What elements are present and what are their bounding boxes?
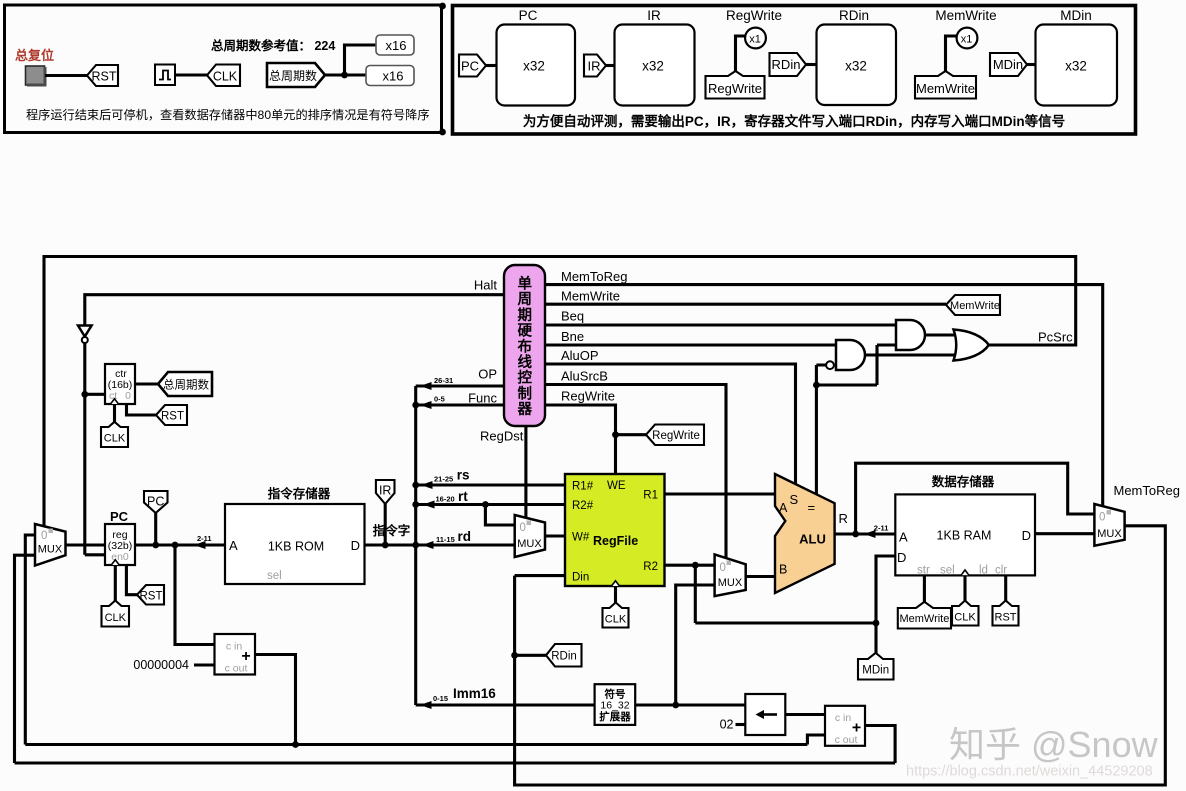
svg-text:+: + xyxy=(241,648,250,665)
node junction xyxy=(412,501,419,508)
svg-text:RegFile: RegFile xyxy=(593,534,638,548)
svg-text:x32: x32 xyxy=(642,59,664,74)
node junction xyxy=(873,620,880,627)
svg-text:1KB RAM: 1KB RAM xyxy=(937,529,992,543)
splitter arrow 0-15 xyxy=(420,701,432,709)
RAM 1KB (data memory) xyxy=(895,494,1035,575)
node box1 top-right corner dot xyxy=(439,3,446,10)
wire instruction bus vertical xyxy=(414,386,417,705)
svg-text:x1: x1 xyxy=(749,34,761,46)
svg-text:PC: PC xyxy=(519,8,538,23)
wire MemToReg mux out (write-back bus) xyxy=(515,526,1166,785)
svg-text:MemToReg: MemToReg xyxy=(561,269,627,284)
tunnel MemWrite (right) xyxy=(946,295,1000,315)
button 总复位 xyxy=(26,66,45,85)
tunnel RST (RAM) xyxy=(993,601,1019,626)
svg-text:https://blog.csdn.net/weixin_4: https://blog.csdn.net/weixin_44529208 xyxy=(906,764,1153,780)
svg-text:RegWrite: RegWrite xyxy=(708,81,762,96)
svg-text:PcSrc: PcSrc xyxy=(1038,330,1073,345)
svg-text:x1: x1 xyxy=(961,34,973,46)
svg-text:IR: IR xyxy=(379,484,392,498)
wire Beq row xyxy=(545,323,896,326)
splitter arrow 11-15 xyxy=(422,541,434,549)
node junction xyxy=(511,652,518,659)
svg-text:MemToReg: MemToReg xyxy=(1114,483,1180,498)
tunnel RegWrite (up) xyxy=(706,71,765,99)
svg-text:RegDst: RegDst xyxy=(480,429,524,444)
wire RAM D input riser xyxy=(876,556,895,623)
svg-text:RST: RST xyxy=(140,591,163,603)
svg-text:R2#: R2# xyxy=(572,500,594,512)
tunnel RST (PC reg) xyxy=(137,585,164,605)
wire xyxy=(806,63,817,66)
clock source xyxy=(155,65,175,86)
svg-text:rt: rt xyxy=(458,489,468,504)
tunnel CLK (RAM) xyxy=(952,601,979,626)
wire clock to CLK xyxy=(175,73,207,76)
node junction xyxy=(152,542,159,549)
svg-text:线: 线 xyxy=(518,353,533,371)
svg-text:Bne: Bne xyxy=(561,329,584,344)
node junction xyxy=(172,542,179,549)
wire sign-extend riser to B mux in1 xyxy=(676,585,715,705)
counter ctr 16b xyxy=(105,364,135,404)
node junction xyxy=(813,382,820,389)
svg-text:11-15: 11-15 xyxy=(436,535,455,544)
wire PC value row xyxy=(135,543,225,546)
tunnel 总周期数 (main, bold) xyxy=(158,372,212,396)
svg-text:周: 周 xyxy=(518,291,533,308)
probe x1 MemWrite xyxy=(957,28,978,49)
probe x32 RDin xyxy=(817,25,897,106)
svg-text:R1#: R1# xyxy=(572,481,594,493)
wire PC+4 row (bottom) xyxy=(25,735,825,745)
svg-text:0: 0 xyxy=(1099,512,1105,524)
wire CLK tunnel to RAM clock xyxy=(963,575,966,601)
svg-text:21-25: 21-25 xyxy=(434,475,453,484)
probe x32 MDin xyxy=(1036,25,1118,106)
wire MDin row xyxy=(695,621,876,624)
svg-text:x32: x32 xyxy=(523,59,545,74)
AND gate (Beq and equal) xyxy=(896,320,925,350)
tunnel RST (box1) xyxy=(87,65,118,86)
wire PC mux in1 riser (branch target) xyxy=(15,555,36,763)
svg-text:rd: rd xyxy=(458,529,472,544)
wire to adder1 xyxy=(175,545,215,645)
svg-text:扩展器: 扩展器 xyxy=(599,710,631,723)
svg-text:sel: sel xyxy=(940,565,955,577)
wire x1 to tunnel xyxy=(946,36,957,73)
wire RST to PC reg xyxy=(126,565,137,595)
wire adder2 out to branch row xyxy=(865,726,895,764)
svg-text:AluOP: AluOP xyxy=(561,348,599,363)
svg-text:控: 控 xyxy=(518,369,533,387)
svg-text:0: 0 xyxy=(41,530,47,542)
svg-text:WE: WE xyxy=(607,480,626,492)
svg-text:RegWrite: RegWrite xyxy=(652,430,700,442)
svg-text:c in: c in xyxy=(226,641,243,653)
wire AND2 out to OR xyxy=(925,333,958,336)
svg-text:clr: clr xyxy=(995,565,1007,577)
ROM 1KB (instruction memory) xyxy=(225,504,365,584)
splitter arrow 16-20 xyxy=(423,501,435,509)
tunnel CLK (RegFile) xyxy=(603,603,629,628)
wire CLK to counter clock xyxy=(113,404,116,425)
svg-text:MUX: MUX xyxy=(1097,528,1122,540)
wire ALU result bypass to MemToReg mux in0 xyxy=(856,463,1095,534)
node junction xyxy=(692,562,699,569)
node junction xyxy=(81,391,88,398)
node junction xyxy=(482,501,489,508)
svg-text:R1: R1 xyxy=(643,490,658,502)
svg-text:0-5: 0-5 xyxy=(434,395,445,404)
svg-text:MUX: MUX xyxy=(38,544,63,556)
node junction xyxy=(672,702,679,709)
register file RegFile xyxy=(565,474,665,586)
svg-text:CLK: CLK xyxy=(954,612,976,624)
tunnel IR (box2) xyxy=(584,55,606,77)
svg-text:0-15: 0-15 xyxy=(433,694,448,703)
svg-text:A: A xyxy=(779,501,788,515)
splitter arrow 21-25 xyxy=(421,481,433,489)
adder branch target xyxy=(825,706,865,746)
svg-text:程序运行结束后可停机，查看数据存储器中80单元的排序情况是有: 程序运行结束后可停机，查看数据存储器中80单元的排序情况是有符号降序 xyxy=(26,107,430,122)
node junction xyxy=(382,542,389,549)
svg-text:总周期数参考值： 224: 总周期数参考值： 224 xyxy=(211,38,335,53)
svg-text:16_32: 16_32 xyxy=(600,700,629,712)
svg-text:0: 0 xyxy=(125,390,131,402)
svg-text:MemWrite: MemWrite xyxy=(935,8,996,23)
wire branch target row (bottom) xyxy=(15,761,896,764)
control unit 单周期硬布线控制器 xyxy=(504,265,545,426)
wire RegDst mux out to W# xyxy=(545,534,565,537)
tunnel MemWrite (up) xyxy=(915,71,976,99)
wire rt branch to RegDst mux in0 xyxy=(485,505,514,526)
wire inverter out to counter and PC reg enable xyxy=(85,343,105,555)
svg-text:=: = xyxy=(808,500,816,515)
wire AND1 out to OR xyxy=(865,353,958,356)
wire AluSrcB to B mux select xyxy=(545,385,726,559)
svg-text:CLK: CLK xyxy=(213,70,238,84)
svg-text:str: str xyxy=(917,565,930,577)
wire R2 to B mux in0 xyxy=(664,564,714,567)
svg-text:x16: x16 xyxy=(383,69,404,84)
wire RST to counter clr xyxy=(127,404,157,415)
mux MemToReg xyxy=(1094,504,1124,546)
svg-text:26-31: 26-31 xyxy=(434,376,453,385)
wire sign extender out xyxy=(635,703,745,706)
wire R2 branch down to MDin row xyxy=(694,565,697,623)
svg-text:ld: ld xyxy=(979,565,988,577)
tunnel CLK (counter) xyxy=(101,422,128,447)
svg-text:Din: Din xyxy=(572,572,589,584)
svg-text:0: 0 xyxy=(520,522,526,534)
probe x16 lower xyxy=(366,66,414,86)
svg-text:期: 期 xyxy=(518,306,533,324)
node junction xyxy=(412,402,419,409)
wire PC tunnel drop xyxy=(154,513,157,545)
svg-text:Halt: Halt xyxy=(474,278,498,293)
svg-text:布: 布 xyxy=(518,337,533,355)
node junction xyxy=(412,542,419,549)
wire xyxy=(606,64,615,67)
svg-text:PC: PC xyxy=(110,509,129,524)
panel box top-left xyxy=(5,5,442,133)
wire button to RST xyxy=(45,74,87,77)
wire counter out xyxy=(135,382,158,385)
node junction xyxy=(852,531,859,538)
wire rt row xyxy=(416,503,565,506)
clock notch PC reg xyxy=(111,560,119,565)
AND gate (Bne and not-equal) xyxy=(836,340,865,370)
wire ALU = output up to gates xyxy=(816,345,896,494)
tunnel PC (box2) xyxy=(459,55,486,77)
svg-text:S: S xyxy=(790,492,799,507)
tunnel CLK (PC reg) xyxy=(102,601,130,627)
tunnel RegWrite (right of control) xyxy=(646,425,704,446)
wire RegWrite net xyxy=(545,405,646,474)
mux PC source xyxy=(35,524,66,566)
wire R1 to ALU A xyxy=(664,492,775,495)
svg-text:CLK: CLK xyxy=(104,433,126,445)
svg-text:D: D xyxy=(351,538,360,553)
clock notch RegFile xyxy=(612,581,620,586)
svg-text:指令字: 指令字 xyxy=(373,523,411,538)
svg-text:MUX: MUX xyxy=(517,538,542,550)
shifter left-shift xyxy=(745,694,785,735)
svg-text:+: + xyxy=(852,720,861,737)
panel box top-right xyxy=(453,6,1136,135)
svg-text:总周期数: 总周期数 xyxy=(269,68,317,83)
wire MemWrite tunnel to RAM str xyxy=(923,575,926,603)
wire adder1 out to PC+4 row xyxy=(255,655,296,745)
tunnel CLK (box1) xyxy=(207,65,240,87)
wire xyxy=(1027,63,1036,66)
svg-text:Beq: Beq xyxy=(561,309,584,324)
svg-text:2-11: 2-11 xyxy=(874,524,889,533)
svg-text:B: B xyxy=(779,563,787,577)
svg-text:MemWrite: MemWrite xyxy=(950,300,1000,312)
svg-text:RegWrite: RegWrite xyxy=(726,8,782,23)
wire shifter out to adder2 xyxy=(785,713,825,716)
svg-text:MDin: MDin xyxy=(1060,8,1092,23)
svg-text:D: D xyxy=(897,550,906,565)
svg-text:sel: sel xyxy=(267,570,282,582)
splitter arrow 26-31 xyxy=(420,382,432,390)
svg-text:总周期数: 总周期数 xyxy=(163,378,209,392)
svg-text:RST: RST xyxy=(995,612,1017,624)
node junction xyxy=(341,72,348,79)
clock notch RAM xyxy=(961,570,969,575)
svg-text:MUX: MUX xyxy=(718,577,743,589)
splitter arrow 2-11 (ROM A) xyxy=(194,541,206,549)
svg-text:指令存储器: 指令存储器 xyxy=(268,486,331,501)
wire RegFile CLK xyxy=(614,586,617,607)
svg-text:PC: PC xyxy=(461,59,479,74)
wire Halt net xyxy=(85,295,504,326)
wire Bne row xyxy=(545,343,836,346)
svg-text:RST: RST xyxy=(161,411,184,423)
svg-text:MemWrite: MemWrite xyxy=(899,613,949,625)
svg-text:rs: rs xyxy=(457,468,470,483)
wire RAM D out to MemToReg mux in1 xyxy=(1035,532,1094,535)
ALU xyxy=(775,474,835,593)
svg-text:02: 02 xyxy=(720,718,734,732)
svg-text:D: D xyxy=(1022,528,1031,543)
svg-text:x16: x16 xyxy=(386,38,407,53)
sign extender 符号16_32扩展器 xyxy=(595,684,636,725)
svg-text:A: A xyxy=(899,530,908,545)
mux RegDst xyxy=(515,515,545,557)
node box1 bottom-right corner dot xyxy=(439,129,446,136)
svg-text:RegWrite: RegWrite xyxy=(561,389,615,404)
tunnel MDin (main) xyxy=(858,653,894,680)
svg-text:制: 制 xyxy=(518,384,533,402)
splitter arrow 0-5 xyxy=(420,401,432,409)
svg-text:R: R xyxy=(839,511,848,526)
mux ALU B source xyxy=(715,554,746,596)
tunnel PC (down) xyxy=(144,491,168,513)
wire PcSrc net (top loop to PC mux select) xyxy=(44,257,1076,527)
wire CLK to PC reg xyxy=(114,565,117,604)
svg-text:MemWrite: MemWrite xyxy=(916,81,975,96)
node junction xyxy=(292,741,299,748)
svg-text:Imm16: Imm16 xyxy=(453,686,496,701)
inverter bubble xyxy=(826,361,834,369)
svg-text:CLK: CLK xyxy=(105,612,127,624)
svg-text:为方便自动评测，需要输出PC，IR，寄存器文件写入端口RDi: 为方便自动评测，需要输出PC，IR，寄存器文件写入端口RDin，内存写入端口MD… xyxy=(523,113,1065,129)
wire MemToReg net xyxy=(545,285,1103,507)
svg-text:单: 单 xyxy=(518,275,533,293)
wire IR drop xyxy=(384,504,387,545)
svg-text:IR: IR xyxy=(588,59,601,74)
wire constant to adder1 xyxy=(194,663,215,666)
probe x32 PC xyxy=(497,25,576,106)
adder PC+4 xyxy=(215,634,256,675)
wire Func row xyxy=(416,403,504,406)
svg-text:16-20: 16-20 xyxy=(436,495,455,504)
svg-text:Func: Func xyxy=(468,391,497,406)
node junction xyxy=(412,482,419,489)
svg-text:知乎 @Snow: 知乎 @Snow xyxy=(949,724,1159,765)
wire RegDst select xyxy=(524,426,527,519)
svg-text:MDin: MDin xyxy=(993,57,1023,72)
tunnel RDin (main) xyxy=(546,644,582,667)
node junction xyxy=(612,431,619,438)
svg-text:ALU: ALU xyxy=(799,532,826,547)
wire ALU R output xyxy=(835,532,896,535)
wire 02 to shifter xyxy=(736,723,746,726)
svg-text:0: 0 xyxy=(720,562,726,574)
tunnel 总周期数 (output, bold) xyxy=(267,63,325,87)
wire MemWrite row xyxy=(545,303,946,306)
svg-text:CLK: CLK xyxy=(605,614,627,626)
wire rd row xyxy=(416,543,515,546)
probe x16 upper xyxy=(376,35,414,55)
svg-text:RDin: RDin xyxy=(551,651,577,663)
svg-text:c in: c in xyxy=(835,712,852,724)
svg-text:IR: IR xyxy=(647,8,661,23)
wire RDin stub xyxy=(515,654,546,657)
svg-text:R2: R2 xyxy=(643,561,658,573)
svg-text:MemWrite: MemWrite xyxy=(561,289,620,304)
splitter arrow 2-11 (RAM A) xyxy=(864,530,876,538)
svg-text:00000004: 00000004 xyxy=(133,658,189,672)
svg-text:x32: x32 xyxy=(845,59,867,74)
wire PC mux in0 riser (PC+4) xyxy=(25,535,35,745)
svg-text:数据存储器: 数据存储器 xyxy=(931,474,995,489)
wire PC mux out xyxy=(66,543,106,546)
wire x1 to tunnel xyxy=(736,36,746,73)
probe x1 RegWrite xyxy=(745,28,766,49)
tunnel IR (down) xyxy=(376,480,395,504)
svg-text:x32: x32 xyxy=(1065,59,1087,74)
inverter (Halt) xyxy=(78,326,92,337)
tunnel RDin (box2) xyxy=(770,53,807,76)
svg-text:W#: W# xyxy=(572,532,590,544)
svg-text:总复位: 总复位 xyxy=(15,48,54,63)
clock notch counter xyxy=(111,399,119,404)
svg-text:OP: OP xyxy=(478,367,497,382)
svg-text:AluSrcB: AluSrcB xyxy=(561,368,608,383)
wire rs row xyxy=(416,483,565,486)
svg-text:RDin: RDin xyxy=(772,57,801,72)
register PC (reg 32b) xyxy=(105,524,135,565)
probe x32 IR xyxy=(615,25,695,106)
svg-text:RDin: RDin xyxy=(839,8,869,23)
wire RST tunnel to RAM clr xyxy=(1004,575,1007,601)
wire OP row xyxy=(416,384,504,387)
wire ROM D to IR bus xyxy=(365,543,416,546)
svg-text:硬: 硬 xyxy=(518,323,533,340)
svg-text:器: 器 xyxy=(517,401,533,418)
wire MDin tunnel stub xyxy=(874,623,877,654)
wire 总周期数 to probes xyxy=(325,45,376,75)
wire AluOP to ALU S xyxy=(545,364,796,484)
svg-text:2-11: 2-11 xyxy=(197,534,212,543)
tunnel MDin (box2) xyxy=(990,53,1027,76)
svg-text:A: A xyxy=(229,538,238,553)
svg-text:1KB ROM: 1KB ROM xyxy=(268,540,324,554)
svg-text:RST: RST xyxy=(92,70,117,84)
wire Imm16 row xyxy=(416,703,595,706)
OR gate (PcSrc) xyxy=(954,330,989,361)
svg-text:PC: PC xyxy=(147,495,164,509)
svg-text:MDin: MDin xyxy=(862,665,889,677)
wire xyxy=(486,64,497,67)
tunnel RST (counter) xyxy=(156,405,187,425)
tunnel MemWrite (RAM) xyxy=(898,602,951,629)
wire B mux out to ALU B xyxy=(746,575,775,578)
